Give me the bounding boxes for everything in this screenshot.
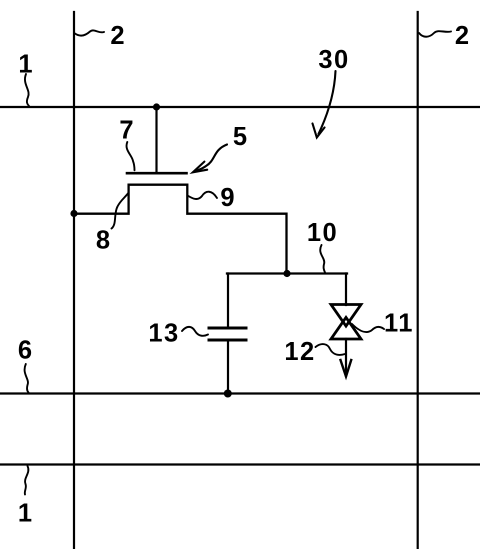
svg-text:1: 1 bbox=[18, 51, 32, 79]
svg-text:11: 11 bbox=[384, 310, 414, 338]
svg-text:1: 1 bbox=[18, 500, 32, 528]
svg-text:12: 12 bbox=[284, 338, 315, 366]
svg-text:6: 6 bbox=[18, 337, 32, 365]
svg-text:30: 30 bbox=[318, 46, 349, 74]
svg-text:2: 2 bbox=[110, 22, 124, 50]
svg-text:9: 9 bbox=[220, 184, 234, 212]
svg-text:7: 7 bbox=[119, 117, 133, 145]
svg-text:10: 10 bbox=[307, 219, 338, 247]
svg-text:13: 13 bbox=[148, 320, 179, 348]
svg-text:2: 2 bbox=[455, 22, 469, 50]
svg-text:8: 8 bbox=[96, 227, 110, 255]
svg-text:5: 5 bbox=[233, 123, 247, 151]
